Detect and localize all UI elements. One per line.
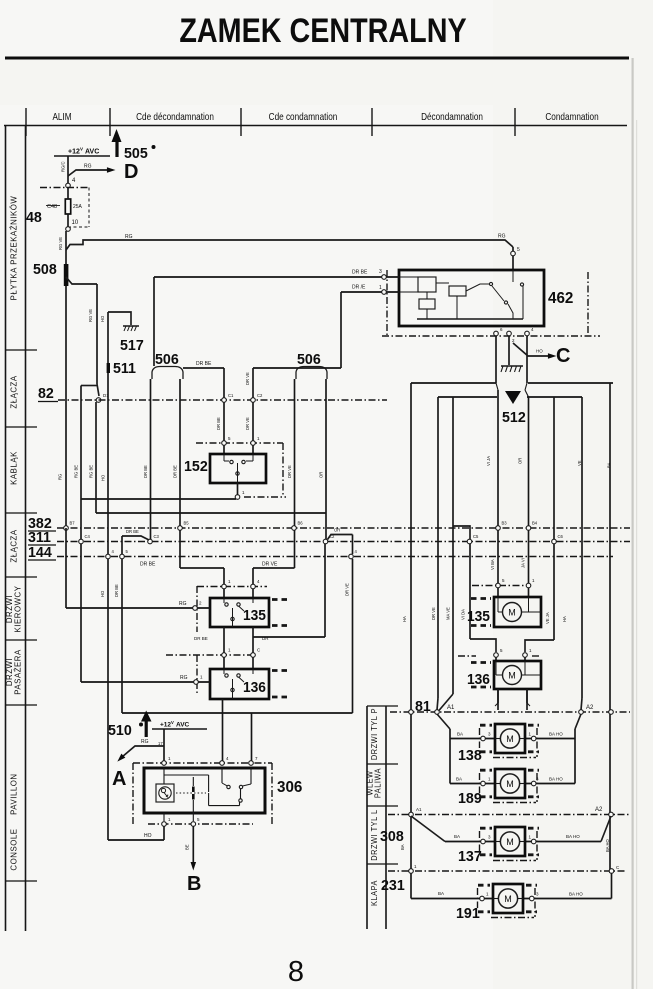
svg-text:RG: RG [141, 739, 149, 745]
svg-text:CONSOLE PAVILLON: CONSOLE PAVILLON [9, 773, 18, 870]
svg-text:3: 3 [379, 269, 382, 275]
svg-text:RG: RG [180, 675, 188, 681]
svg-text:OR: OR [518, 458, 523, 464]
svg-text:+12: +12 [68, 149, 80, 156]
svg-text:DRZWI TYL P: DRZWI TYL P [370, 708, 379, 760]
svg-text:BA: BA [456, 777, 462, 782]
svg-text:BA: BA [438, 891, 444, 896]
svg-text:VI BA: VI BA [490, 559, 495, 570]
svg-text:A: A [112, 768, 126, 790]
svg-text:M: M [506, 734, 514, 744]
svg-text:DR: DR [262, 636, 269, 641]
svg-text:82: 82 [38, 386, 54, 402]
svg-text:DR VE: DR VE [287, 465, 292, 478]
svg-text:RG: RG [58, 474, 63, 480]
svg-text:BA HO: BA HO [566, 834, 580, 839]
svg-text:A2: A2 [586, 705, 594, 711]
svg-text:A2: A2 [595, 807, 603, 813]
svg-text:189: 189 [458, 791, 482, 807]
svg-text:VI DA: VI DA [461, 609, 466, 620]
svg-text:462: 462 [548, 290, 574, 307]
svg-text:RG VE: RG VE [58, 237, 63, 250]
svg-text:RG VE: RG VE [88, 309, 93, 322]
svg-text:BA: BA [454, 834, 460, 839]
svg-text:C6: C6 [558, 534, 564, 539]
svg-text:AVC: AVC [85, 149, 99, 156]
svg-text:B6: B6 [298, 521, 304, 526]
svg-text:HO: HO [100, 315, 105, 322]
svg-text:BA HO: BA HO [605, 838, 610, 852]
svg-text:DR BE: DR BE [216, 417, 221, 430]
svg-text:191: 191 [456, 906, 480, 922]
svg-text:DR VE: DR VE [345, 583, 350, 596]
svg-text:BA HO: BA HO [549, 777, 563, 782]
svg-text:C48: C48 [47, 204, 57, 210]
svg-text:C1: C1 [228, 393, 234, 398]
svg-text:510: 510 [108, 723, 132, 739]
svg-text:RG BE: RG BE [89, 465, 94, 478]
svg-text:Cde décondamnation: Cde décondamnation [136, 111, 214, 122]
svg-text:OR: OR [334, 528, 340, 533]
svg-text:M: M [508, 608, 516, 618]
svg-text:VI JA: VI JA [486, 456, 491, 466]
svg-text:BA HO: BA HO [569, 892, 583, 897]
svg-text:152: 152 [184, 459, 208, 475]
svg-text:M: M [506, 837, 514, 847]
svg-text:231: 231 [381, 878, 405, 894]
svg-text:+12: +12 [160, 722, 171, 729]
svg-text:48: 48 [26, 210, 42, 226]
svg-text:PASAŻERA: PASAŻERA [12, 649, 22, 695]
svg-text:506: 506 [297, 352, 321, 368]
svg-text:ZŁĄCZA: ZŁĄCZA [9, 375, 18, 408]
svg-text:D: D [124, 161, 138, 183]
svg-text:A1: A1 [447, 705, 455, 711]
svg-text:DR VE: DR VE [245, 372, 250, 385]
svg-text:135: 135 [243, 607, 266, 623]
svg-text:Décondamnation: Décondamnation [421, 111, 483, 122]
svg-text:ZŁĄCZA: ZŁĄCZA [9, 529, 18, 562]
svg-text:DR BE: DR BE [140, 562, 156, 568]
svg-text:144: 144 [28, 545, 53, 561]
svg-text:RG/C: RG/C [61, 162, 66, 172]
svg-text:137: 137 [458, 849, 482, 865]
svg-text:M: M [508, 671, 516, 681]
svg-text:DR BE: DR BE [126, 529, 139, 534]
svg-text:DR BE: DR BE [194, 636, 208, 641]
svg-text:C2: C2 [257, 393, 263, 398]
svg-text:DR VE: DR VE [431, 607, 436, 620]
svg-text:BE: BE [185, 844, 190, 850]
svg-text:DR BE: DR BE [196, 361, 212, 367]
svg-text:VE JA: VE JA [545, 612, 550, 624]
svg-text:DR BE: DR BE [173, 465, 178, 478]
svg-text:BA: BA [457, 732, 463, 737]
svg-text:506: 506 [155, 352, 179, 368]
svg-text:DR BE: DR BE [352, 270, 368, 276]
svg-text:MA VE: MA VE [446, 607, 451, 620]
svg-text:DR /E: DR /E [352, 285, 366, 291]
svg-text:136: 136 [243, 679, 266, 695]
svg-text:RG: RG [498, 234, 506, 240]
svg-text:C5: C5 [473, 534, 479, 539]
svg-text:HO: HO [536, 349, 543, 354]
svg-text:517: 517 [120, 338, 144, 354]
svg-text:25A: 25A [73, 204, 83, 210]
svg-text:138: 138 [458, 748, 482, 764]
svg-text:M: M [504, 894, 512, 904]
svg-text:B5: B5 [184, 521, 190, 526]
svg-text:C: C [556, 345, 570, 367]
svg-text:512: 512 [502, 410, 526, 426]
svg-text:311: 311 [28, 530, 51, 546]
svg-text:HA: HA [402, 616, 407, 622]
svg-text:HA: HA [562, 616, 567, 622]
svg-text:C3: C3 [154, 534, 160, 539]
svg-text:81: 81 [415, 699, 431, 715]
svg-text:Condamnation: Condamnation [545, 111, 598, 122]
svg-text:B: B [187, 873, 201, 895]
svg-text:10: 10 [72, 220, 79, 226]
svg-text:RG: RG [179, 601, 187, 607]
svg-text:308: 308 [380, 829, 404, 845]
svg-text:OR: OR [319, 472, 324, 478]
svg-text:BA HO: BA HO [549, 732, 563, 737]
svg-text:RG: RG [125, 234, 133, 240]
svg-text:8: 8 [288, 956, 304, 988]
svg-text:ALIM: ALIM [52, 111, 71, 122]
svg-text:V: V [80, 147, 83, 152]
svg-text:PALIWA: PALIWA [373, 768, 382, 799]
svg-text:DR BE: DR BE [114, 584, 119, 597]
svg-text:JA VI: JA VI [521, 558, 526, 568]
svg-text:PŁYTKA PRZEKAŹNIKÓW: PŁYTKA PRZEKAŹNIKÓW [8, 196, 18, 301]
svg-text:A1: A1 [416, 807, 422, 812]
svg-text:M: M [506, 779, 514, 789]
svg-text:HO: HO [100, 590, 105, 597]
svg-text:C4: C4 [85, 534, 91, 539]
svg-text:DRZWI TYL L: DRZWI TYL L [370, 809, 379, 861]
svg-text:AVC: AVC [176, 722, 190, 729]
svg-text:5: 5 [517, 247, 520, 253]
svg-text:306: 306 [277, 779, 303, 796]
svg-text:RG BE: RG BE [74, 465, 79, 478]
svg-text:HO: HO [101, 474, 106, 481]
svg-text:B4: B4 [532, 521, 538, 526]
svg-text:B3: B3 [502, 521, 508, 526]
svg-text:136: 136 [467, 671, 490, 687]
svg-text:1: 1 [379, 285, 382, 291]
svg-text:B7: B7 [70, 521, 76, 526]
svg-text:KIEROWCY: KIEROWCY [13, 586, 22, 633]
svg-text:KLAPA: KLAPA [370, 880, 379, 906]
svg-text:ZAMEK CENTRALNY: ZAMEK CENTRALNY [179, 12, 466, 50]
svg-text:RG: RG [84, 164, 92, 170]
svg-text:BA: BA [400, 844, 405, 850]
svg-text:HO: HO [144, 833, 152, 839]
svg-text:KABLĄK: KABLĄK [9, 451, 18, 485]
svg-text:505: 505 [124, 146, 148, 162]
svg-text:508: 508 [33, 262, 57, 278]
svg-text:DR BE: DR BE [143, 465, 148, 478]
svg-text:DR VE: DR VE [245, 417, 250, 430]
svg-text:DR VE: DR VE [262, 562, 278, 568]
svg-text:Cde condamnation: Cde condamnation [269, 111, 338, 122]
svg-text:V: V [171, 720, 174, 725]
svg-text:511: 511 [113, 361, 136, 377]
svg-text:135: 135 [467, 608, 490, 624]
